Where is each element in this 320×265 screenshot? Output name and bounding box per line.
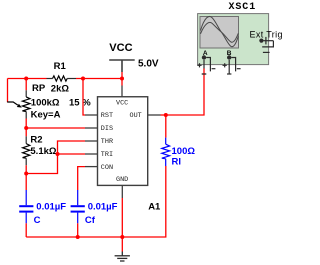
wire top rail left	[8, 78, 47, 80]
svg-text:RP: RP	[32, 83, 46, 94]
scope pin A end tick	[202, 73, 206, 75]
wire OUT to scope A	[166, 69, 204, 116]
junction VCC tee	[120, 77, 124, 81]
wire CON	[78, 167, 85, 190]
svg-text:THR: THR	[101, 138, 113, 146]
svg-text:C: C	[34, 215, 41, 226]
wire GND drop	[121, 198, 123, 252]
wire OUT down to RI	[165, 115, 167, 138]
wire DIS	[26, 127, 85, 129]
svg-text:2kΩ: 2kΩ	[51, 84, 70, 95]
svg-text:5.0V: 5.0V	[138, 59, 159, 70]
wire RI to bottom rail	[122, 166, 166, 237]
svg-text:100Ω: 100Ω	[172, 146, 196, 157]
pin stub TRI	[85, 153, 98, 155]
svg-text:15 %: 15 %	[69, 98, 91, 109]
capacitor Cf	[71, 190, 85, 237]
junction GND tee	[120, 235, 124, 239]
svg-text:0.01µF: 0.01µF	[88, 202, 118, 213]
svg-text:VCC: VCC	[109, 42, 132, 54]
svg-text:A1: A1	[148, 202, 161, 213]
svg-text:XSC1: XSC1	[229, 2, 257, 13]
resistor R2	[23, 128, 30, 174]
wire top rail right	[76, 78, 122, 80]
svg-text:0.01µF: 0.01µF	[36, 202, 66, 213]
resistor R1	[47, 76, 77, 81]
wire OUT to junction	[161, 114, 166, 116]
resistor RI	[162, 138, 170, 166]
junction TRI tee	[56, 152, 60, 156]
pin stub VCC	[121, 86, 123, 97]
svg-text:R2: R2	[30, 134, 42, 145]
wire RST riser	[83, 79, 85, 116]
pin stub GND	[121, 185, 123, 198]
svg-text:Key=A: Key=A	[31, 109, 61, 120]
svg-text:OUT: OUT	[130, 112, 142, 120]
capacitor C	[19, 174, 33, 238]
junction DIS	[24, 126, 28, 130]
wire VCC drop	[121, 72, 123, 86]
pin stub CON	[85, 166, 98, 168]
scope terminal A	[197, 50, 215, 74]
svg-text:GND: GND	[116, 176, 128, 184]
junction R1/RST	[81, 77, 85, 81]
scope terminal B	[223, 50, 241, 74]
wire bottom rail	[26, 236, 122, 238]
svg-text:RST: RST	[101, 112, 113, 120]
svg-text:CON: CON	[101, 164, 113, 172]
pin stub THR	[85, 140, 98, 142]
junction Cf bottom	[76, 235, 80, 239]
pin stub OUT	[148, 114, 161, 116]
potentiometer RP	[7, 79, 30, 129]
svg-text:RI: RI	[172, 157, 182, 168]
timer A1 (555)	[85, 86, 161, 199]
svg-text:R1: R1	[54, 61, 67, 72]
svg-text:VCC: VCC	[116, 100, 128, 108]
ground	[115, 252, 130, 262]
svg-text:5.1kΩ: 5.1kΩ	[30, 146, 56, 157]
svg-text:100kΩ: 100kΩ	[31, 97, 60, 108]
power VCC symbol	[109, 60, 135, 72]
junction OUT	[164, 113, 168, 117]
oscilloscope XSC1	[198, 14, 269, 65]
wire left drop to wiper	[7, 79, 9, 103]
junction pot top	[24, 77, 28, 81]
wire TRI	[58, 153, 86, 155]
svg-text:DIS: DIS	[101, 125, 113, 133]
junction R2 bottom	[24, 172, 28, 176]
svg-text:TRI: TRI	[101, 151, 113, 159]
wire THR/TRI riser	[26, 141, 85, 174]
pin stub DIS	[85, 127, 98, 129]
Ext Trig terminal	[259, 37, 273, 53]
svg-text:Cf: Cf	[85, 215, 96, 226]
pin stub RST	[85, 114, 98, 116]
